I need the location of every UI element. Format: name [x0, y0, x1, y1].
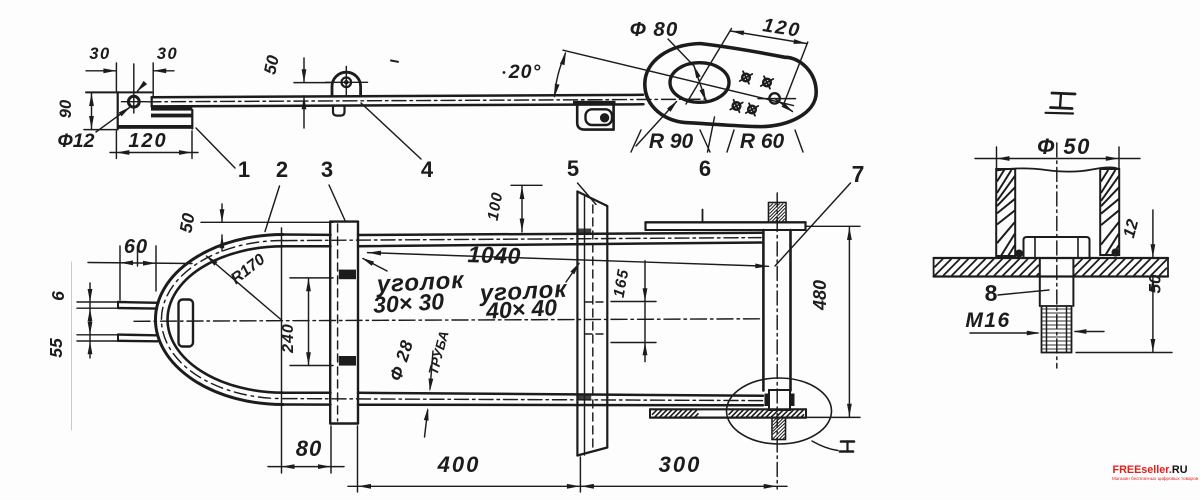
svg-text:400: 400 — [437, 452, 481, 477]
svg-text:90: 90 — [57, 99, 75, 118]
U-tube bend inner curve — [168, 246, 283, 392]
plate big hole phi 80 — [670, 63, 729, 103]
bottom plate hatching — [652, 410, 699, 417]
svg-text:240: 240 — [280, 323, 297, 354]
callout 6 leader — [708, 117, 715, 152]
svg-text:8: 8 — [985, 280, 998, 306]
svg-text:120: 120 — [128, 130, 167, 152]
callout 1 leader — [196, 128, 235, 168]
U-tube bend outer curve — [155, 235, 283, 405]
pipe right wall (section) — [1100, 169, 1119, 255]
svg-text:3: 3 — [321, 157, 333, 182]
dim 120 extension through big hole — [686, 29, 732, 105]
cross angle item 5 — [576, 192, 578, 456]
dim 80 — [281, 228, 283, 473]
svg-text:40× 40: 40× 40 — [484, 294, 557, 324]
pipe break line at top — [997, 167, 1119, 171]
top tube of frame — [283, 233, 331, 236]
top bolt (threaded) — [769, 203, 787, 223]
base plate hatching — [935, 259, 1040, 276]
svg-text:6: 6 — [48, 291, 68, 301]
FREEseller.RU watermark logo — [1112, 465, 1188, 482]
svg-text:60: 60 — [124, 236, 148, 258]
plate axis slant line — [563, 50, 794, 105]
svg-text:80: 80 — [296, 436, 322, 461]
svg-text:30× 30: 30× 30 — [372, 288, 444, 318]
svg-text:7: 7 — [852, 161, 865, 187]
side view: hitch bracket item 1 outline — [117, 92, 119, 128]
bolt shank — [1039, 258, 1041, 306]
detail I leader — [812, 441, 838, 451]
svg-text:R 60: R 60 — [740, 130, 785, 153]
dim 120 extension right — [783, 42, 808, 106]
bottom nut — [769, 390, 790, 410]
dim 240 — [308, 278, 310, 366]
dim 50 (section) — [1152, 277, 1154, 352]
svg-text:1: 1 — [238, 157, 250, 182]
axle bar item 7 centerline — [776, 193, 778, 489]
R60 radius arrow — [775, 98, 793, 111]
bolt centerline mark — [702, 210, 704, 223]
top tube centerline — [283, 238, 761, 241]
svg-text:50: 50 — [176, 211, 199, 234]
frame horizontal centerline — [134, 319, 761, 322]
cross plate hidden edge — [337, 224, 339, 421]
svg-text:4: 4 — [421, 157, 434, 182]
plate item 6 egg-shaped outline — [645, 44, 816, 127]
dim 400 and 300 — [357, 426, 359, 492]
clamp item 4 arch — [332, 72, 361, 96]
callout 8 leader — [998, 290, 1049, 295]
U-tube bend centerline — [161, 241, 283, 399]
detail circle I — [727, 378, 832, 444]
rail end bracket with pin — [573, 101, 616, 106]
dim 1040 line — [368, 253, 769, 267]
cross plate weld blocks — [339, 270, 356, 280]
svg-text:M16: M16 — [965, 309, 1010, 332]
dim 12 — [1152, 210, 1154, 258]
base plate (section) — [934, 257, 1168, 259]
bracket hole (phi 12) — [128, 96, 139, 107]
callout 3 leader — [329, 185, 345, 221]
hitch fork top prong — [118, 301, 159, 304]
bottom tube centerline — [283, 399, 763, 401]
axle bar item 7 — [762, 230, 765, 391]
flattened tube front face — [179, 300, 194, 347]
label ugolok 40x40 with leader — [566, 264, 579, 283]
pipe centerline — [1056, 143, 1058, 368]
dim 165 — [644, 261, 646, 362]
svg-text:R 90: R 90 — [649, 130, 694, 153]
svg-text:2: 2 — [276, 157, 288, 182]
rail centerline — [147, 99, 706, 102]
plate right hole — [769, 93, 779, 103]
leader arrow at hole centerline — [138, 85, 144, 92]
scan fold artifact — [71, 262, 73, 430]
svg-text:1040: 1040 — [467, 241, 521, 269]
drawbar rail — [152, 95, 643, 97]
bolt threaded end M16 — [1042, 306, 1072, 353]
angle arc — [555, 53, 566, 97]
hitch fork bottom prong — [118, 333, 156, 336]
phi 80 diameter arrows — [694, 66, 706, 101]
bottom bolt (threaded) — [772, 418, 786, 440]
svg-text:Ф 80: Ф 80 — [630, 18, 679, 41]
dim 100 — [511, 184, 542, 186]
detail I label — [841, 440, 854, 443]
section label I — [1052, 93, 1075, 94]
stray scan dash — [391, 61, 398, 62]
callout 2 leader — [265, 186, 280, 232]
item 5 weld marks — [578, 229, 591, 235]
weld dots at pipe base — [1015, 250, 1023, 258]
cross plate item 3 — [329, 222, 331, 424]
callout 5 leader — [578, 183, 597, 205]
clamp hole — [342, 78, 352, 88]
svg-text:30: 30 — [89, 45, 110, 63]
dim 6 / 55 dimension line — [89, 283, 91, 358]
svg-text:50: 50 — [1146, 274, 1165, 293]
nut item 8 — [1024, 237, 1090, 258]
svg-text:300: 300 — [659, 452, 702, 477]
dim 50 (plan) — [201, 221, 333, 223]
dim 6 and 55 ticks — [77, 301, 118, 303]
callout 7 leader — [775, 183, 851, 266]
clamp lower tab — [333, 106, 345, 116]
svg-text:6: 6 — [699, 156, 711, 181]
item 5 hidden flange dashes — [585, 301, 607, 303]
svg-text:Ф12: Ф12 — [58, 130, 95, 152]
callout 4 leader — [361, 103, 421, 159]
R170 radius leader — [207, 256, 282, 320]
svg-text:480: 480 — [810, 280, 830, 311]
label ugolok 30x30 with leader — [363, 259, 387, 272]
small bolt holes with cross marks — [742, 74, 750, 82]
bottom tube of frame — [283, 391, 331, 394]
bottom mounting plate — [650, 408, 806, 410]
dim 480 — [806, 225, 860, 227]
pipe left wall (section) — [996, 169, 1015, 256]
svg-text:5: 5 — [567, 156, 579, 181]
angle dimension 20 deg — [503, 71, 506, 74]
rear cross bar (top) — [646, 221, 806, 223]
svg-text:20°: 20° — [508, 61, 542, 83]
svg-text:30: 30 — [157, 45, 178, 63]
svg-text:Ф 50: Ф 50 — [1037, 134, 1091, 159]
svg-text:55: 55 — [46, 338, 66, 358]
